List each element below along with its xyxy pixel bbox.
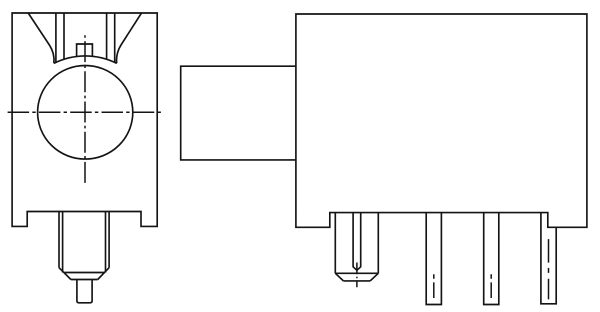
post chamfer left diagonal — [59, 268, 71, 280]
reflector rim arc — [54, 56, 117, 63]
pin 3 centerline — [490, 274, 492, 298]
post centerline — [356, 263, 358, 288]
bore inner wall left vertical — [63, 13, 65, 59]
post side chamfer shoulder line — [335, 272, 378, 274]
post side chamfer right diagonal — [370, 273, 378, 281]
horizontal centerline — [8, 111, 162, 113]
side body outline with standoff feet — [296, 14, 587, 227]
LED lens circle — [38, 66, 133, 160]
lens barrel protrusion — [181, 66, 296, 160]
vertical centerline — [84, 35, 86, 186]
mounting post inner edge left — [62, 212, 64, 273]
pin 4 centerline — [548, 239, 550, 299]
post chamfer right diagonal — [98, 268, 109, 280]
lead pin 4 — [541, 213, 556, 304]
bore outer wall left vertical — [55, 13, 57, 62]
pin 2 centerline — [433, 274, 435, 298]
LED die square — [77, 44, 93, 57]
post bottom face — [71, 279, 98, 281]
post side inner edges and pin tip — [353, 213, 361, 271]
post side outer right — [377, 213, 379, 274]
mounting post inner edge right — [105, 212, 107, 273]
housing body outline with standoff feet — [12, 13, 157, 226]
bore outer wall right vertical — [114, 13, 116, 62]
bore inner wall right vertical — [106, 13, 108, 59]
mounting post outer left — [58, 212, 60, 268]
post side bottom face — [343, 280, 370, 282]
post chamfer shoulder line — [64, 272, 105, 274]
lead pin 3 — [484, 213, 499, 305]
post side chamfer left diagonal — [335, 273, 343, 281]
lead pin front view — [77, 280, 92, 303]
reflector funnel left edge — [28, 13, 54, 63]
mounting post outer right — [108, 212, 110, 268]
post side outer left — [334, 213, 336, 274]
reflector funnel right edge — [117, 13, 142, 63]
lead pin 2 — [426, 213, 441, 305]
